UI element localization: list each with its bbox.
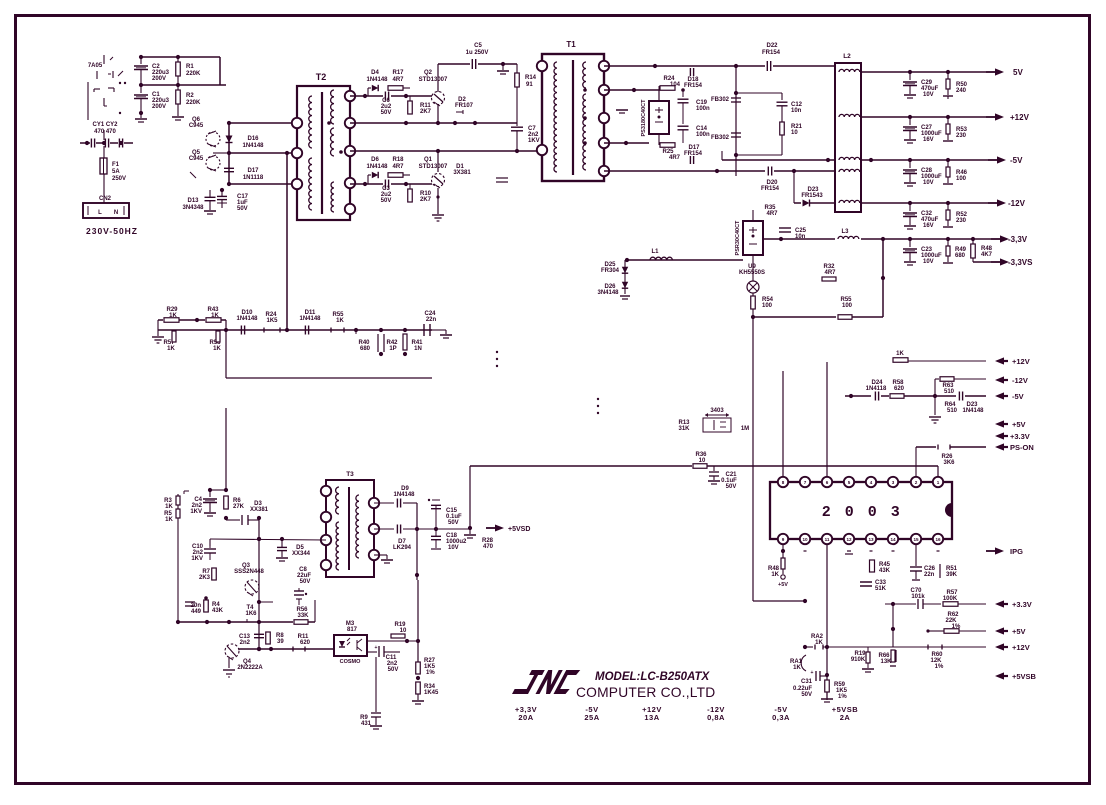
svg-text:-5V: -5V (1010, 156, 1023, 165)
svg-text:2: 2 (915, 480, 918, 485)
svg-text:FR154: FR154 (684, 83, 703, 89)
svg-text:1N: 1N (414, 346, 422, 352)
svg-text:20A: 20A (518, 713, 533, 722)
svg-text:1KV: 1KV (190, 509, 202, 515)
svg-text:-3,3V: -3,3V (1008, 235, 1028, 244)
svg-text:39K: 39K (946, 572, 958, 578)
svg-text:1%: 1% (838, 694, 847, 700)
svg-text:XX381: XX381 (250, 507, 269, 513)
svg-text:LK294: LK294 (393, 545, 412, 551)
svg-text:D17: D17 (247, 168, 259, 174)
svg-text:3403: 3403 (710, 408, 724, 414)
svg-text:50V: 50V (300, 579, 311, 585)
svg-text:1u 250V: 1u 250V (466, 50, 489, 56)
svg-text:1K: 1K (165, 517, 173, 523)
svg-text:1K45: 1K45 (424, 690, 439, 696)
svg-text:STD13007: STD13007 (419, 164, 448, 170)
svg-text:50V: 50V (448, 520, 459, 526)
svg-text:50V: 50V (726, 484, 737, 490)
svg-text:5: 5 (848, 480, 851, 485)
svg-text:10: 10 (699, 458, 706, 464)
svg-text:+12V: +12V (1012, 357, 1030, 366)
svg-text:50V: 50V (381, 198, 392, 204)
svg-text:10: 10 (791, 130, 798, 136)
svg-text:D22: D22 (766, 43, 778, 49)
svg-text:230: 230 (956, 133, 967, 139)
svg-text:12: 12 (846, 537, 852, 542)
svg-text:4R7: 4R7 (392, 164, 404, 170)
svg-text:31K: 31K (678, 426, 690, 432)
svg-text:16V: 16V (923, 137, 934, 143)
svg-text:3N4148: 3N4148 (597, 290, 619, 296)
svg-text:10V: 10V (448, 545, 459, 551)
svg-text:100: 100 (842, 303, 853, 309)
svg-text:470: 470 (483, 544, 494, 550)
svg-text:7: 7 (804, 480, 807, 485)
svg-text:510: 510 (947, 408, 958, 414)
svg-text:16V: 16V (923, 223, 934, 229)
svg-text:910K: 910K (851, 657, 866, 663)
svg-text:R14: R14 (525, 75, 537, 81)
svg-text:-12V: -12V (1008, 199, 1026, 208)
svg-text:+5V: +5V (1012, 420, 1026, 429)
svg-text:CY1 CY2: CY1 CY2 (92, 122, 118, 128)
svg-text:FR154: FR154 (761, 186, 780, 192)
svg-text:FB302: FB302 (711, 97, 730, 103)
svg-text:+5V: +5V (1012, 627, 1026, 636)
svg-text:50V: 50V (388, 667, 399, 673)
svg-text:1K: 1K (771, 572, 779, 578)
svg-text:+5VSB: +5VSB (1012, 672, 1037, 681)
svg-text:1P: 1P (389, 346, 396, 352)
svg-text:91: 91 (526, 82, 533, 88)
svg-text:+5VSD: +5VSD (508, 526, 530, 533)
svg-text:-3,3VS: -3,3VS (1008, 258, 1033, 267)
svg-text:C31: C31 (801, 679, 813, 685)
svg-text:1%: 1% (426, 670, 435, 676)
svg-text:6: 6 (826, 480, 829, 485)
svg-text:D4: D4 (371, 70, 379, 76)
svg-text:2K7: 2K7 (420, 109, 432, 115)
svg-text:5V: 5V (1013, 68, 1023, 77)
svg-text:4: 4 (870, 480, 873, 485)
svg-text:510: 510 (944, 389, 955, 395)
svg-text:230: 230 (956, 218, 967, 224)
svg-text:1N4148: 1N4148 (236, 316, 258, 322)
svg-text:25A: 25A (584, 713, 599, 722)
svg-text:3: 3 (892, 480, 895, 485)
svg-text:22n: 22n (426, 317, 437, 323)
svg-text:43K: 43K (212, 608, 224, 614)
svg-text:SSS2N448: SSS2N448 (234, 569, 264, 575)
svg-text:0,8A: 0,8A (707, 713, 725, 722)
svg-text:817: 817 (347, 627, 358, 633)
svg-text:COMPUTER CO.,LTD: COMPUTER CO.,LTD (576, 685, 715, 700)
svg-text:5A: 5A (112, 169, 120, 175)
svg-text:100: 100 (762, 303, 773, 309)
svg-text:50V: 50V (381, 110, 392, 116)
svg-text:T2: T2 (316, 72, 327, 82)
svg-text:FB302: FB302 (711, 135, 730, 141)
svg-text:50V: 50V (801, 692, 812, 698)
svg-text:100K: 100K (943, 596, 958, 602)
svg-text:MODEL:LC-B250ATX: MODEL:LC-B250ATX (595, 671, 710, 683)
svg-text:R18: R18 (392, 157, 404, 163)
svg-text:L1: L1 (651, 249, 659, 255)
svg-text:1N4148: 1N4148 (366, 164, 388, 170)
svg-text:+3.3V: +3.3V (1012, 600, 1032, 609)
svg-text:FR154: FR154 (762, 50, 781, 56)
svg-text:C945: C945 (189, 156, 204, 162)
svg-text:3X381: 3X381 (453, 170, 471, 176)
svg-text:1KV: 1KV (528, 138, 540, 144)
svg-text:11: 11 (825, 537, 830, 542)
svg-text:1: 1 (937, 480, 940, 485)
svg-text:43K: 43K (879, 568, 891, 574)
svg-text:1N1118: 1N1118 (243, 175, 264, 181)
svg-text:230V-50HZ: 230V-50HZ (86, 226, 138, 236)
svg-text:D6: D6 (371, 157, 379, 163)
svg-text:PS-ON: PS-ON (1010, 443, 1034, 452)
svg-text:4K7: 4K7 (981, 252, 993, 258)
svg-text:680: 680 (955, 253, 966, 259)
svg-text:10V: 10V (923, 180, 934, 186)
svg-text:10V: 10V (923, 259, 934, 265)
svg-text:R2: R2 (186, 93, 194, 99)
svg-text:1K: 1K (815, 640, 823, 646)
svg-text:1N4118: 1N4118 (866, 386, 887, 392)
svg-text:PS3180C40CT: PS3180C40CT (641, 99, 647, 137)
svg-text:240: 240 (956, 88, 967, 94)
svg-text:PSR30C40CT: PSR30C40CT (735, 220, 741, 255)
svg-text:1K6: 1K6 (245, 611, 257, 617)
svg-text:1N4148: 1N4148 (366, 77, 388, 83)
svg-text:50V: 50V (237, 206, 248, 212)
svg-text:XX344: XX344 (292, 551, 311, 557)
svg-text:4R7: 4R7 (824, 270, 836, 276)
svg-text:2K7: 2K7 (420, 197, 432, 203)
svg-text:100n: 100n (696, 106, 710, 112)
svg-text:R1: R1 (186, 64, 194, 70)
svg-text:13: 13 (868, 537, 874, 542)
svg-text:C5: C5 (474, 43, 482, 49)
svg-text:470 470: 470 470 (94, 129, 116, 135)
svg-text:13A: 13A (644, 713, 659, 722)
svg-text:L3: L3 (841, 229, 849, 235)
svg-text:27K: 27K (233, 504, 245, 510)
svg-text:1K: 1K (896, 351, 904, 357)
svg-text:COSMO: COSMO (340, 659, 362, 665)
svg-text:250V: 250V (112, 176, 126, 182)
svg-text:STD13007: STD13007 (419, 77, 448, 83)
svg-text:Q2: Q2 (424, 70, 433, 76)
svg-text:KH5550S: KH5550S (739, 270, 765, 276)
svg-text:15: 15 (913, 537, 919, 542)
svg-text:+5V: +5V (778, 582, 788, 588)
svg-text:14: 14 (890, 537, 896, 542)
svg-text:220K: 220K (186, 100, 201, 106)
svg-text:0,3A: 0,3A (772, 713, 790, 722)
svg-text:1K: 1K (167, 346, 175, 352)
svg-text:1KV: 1KV (191, 556, 203, 562)
svg-text:Q1: Q1 (424, 157, 433, 163)
svg-text:620: 620 (300, 640, 311, 646)
svg-text:+12V: +12V (1012, 643, 1030, 652)
svg-text:1M: 1M (741, 426, 749, 432)
svg-text:10V: 10V (923, 92, 934, 98)
svg-text:7A05: 7A05 (88, 63, 103, 69)
svg-text:100n: 100n (696, 132, 710, 138)
svg-text:200V: 200V (152, 104, 166, 110)
svg-text:T1: T1 (566, 40, 576, 49)
svg-text:1K: 1K (793, 665, 801, 671)
svg-text:T3: T3 (346, 471, 354, 478)
svg-text:1N4148: 1N4148 (299, 316, 321, 322)
svg-text:+: + (811, 670, 814, 676)
svg-text:3K6: 3K6 (943, 460, 955, 466)
svg-text:4R7: 4R7 (766, 211, 778, 217)
svg-text:FR304: FR304 (601, 268, 620, 274)
svg-text:2K3: 2K3 (199, 575, 211, 581)
svg-text:2 0 0 3: 2 0 0 3 (822, 504, 903, 521)
svg-text:449: 449 (191, 609, 202, 615)
svg-text:IPG: IPG (1010, 547, 1023, 556)
svg-text:-5V: -5V (1012, 392, 1024, 401)
svg-text:1K: 1K (165, 504, 173, 510)
svg-text:1K: 1K (336, 318, 344, 324)
svg-text:10: 10 (802, 537, 808, 542)
svg-text:F1: F1 (112, 162, 120, 168)
svg-text:680: 680 (360, 346, 371, 352)
svg-text:D16: D16 (247, 136, 259, 142)
svg-text:2N2222A: 2N2222A (237, 665, 263, 671)
svg-text:10n: 10n (791, 108, 802, 114)
svg-text:8: 8 (782, 480, 785, 485)
svg-text:1K5: 1K5 (266, 318, 278, 324)
svg-text:1N4148: 1N4148 (242, 143, 264, 149)
svg-text:16: 16 (935, 537, 941, 542)
svg-text:220K: 220K (186, 71, 201, 77)
svg-text:D13: D13 (187, 198, 199, 204)
svg-text:39: 39 (277, 639, 284, 645)
svg-text:2A: 2A (840, 713, 851, 722)
svg-text:100: 100 (956, 176, 967, 182)
svg-text:C945: C945 (189, 123, 204, 129)
svg-text:-12V: -12V (1012, 376, 1028, 385)
svg-text:33K: 33K (297, 613, 309, 619)
svg-text:200V: 200V (152, 76, 166, 82)
svg-text:N: N (114, 210, 118, 216)
svg-text:10: 10 (400, 628, 407, 634)
svg-text:4R7: 4R7 (392, 77, 404, 83)
svg-text:9: 9 (782, 537, 785, 542)
svg-text:2n2: 2n2 (240, 640, 251, 646)
svg-text:1N4148: 1N4148 (393, 492, 415, 498)
svg-text:22n: 22n (924, 572, 935, 578)
svg-text:FR107: FR107 (455, 103, 474, 109)
svg-text:+3.3V: +3.3V (1010, 432, 1030, 441)
svg-text:3N4348: 3N4348 (182, 205, 204, 211)
svg-text:L2: L2 (843, 53, 851, 60)
svg-text:L: L (98, 210, 102, 216)
svg-text:51K: 51K (875, 586, 887, 592)
svg-text:CN2: CN2 (99, 196, 112, 202)
svg-text:FR1543: FR1543 (801, 193, 823, 199)
svg-text:1N4148: 1N4148 (962, 408, 984, 414)
svg-text:620: 620 (894, 386, 905, 392)
svg-text:1%: 1% (935, 664, 944, 670)
svg-text:R17: R17 (392, 70, 404, 76)
svg-text:4R7: 4R7 (669, 155, 681, 161)
svg-text:1K: 1K (213, 346, 221, 352)
svg-text:+12V: +12V (1010, 113, 1030, 122)
svg-text:104: 104 (670, 82, 681, 88)
svg-text:+: + (375, 645, 378, 651)
